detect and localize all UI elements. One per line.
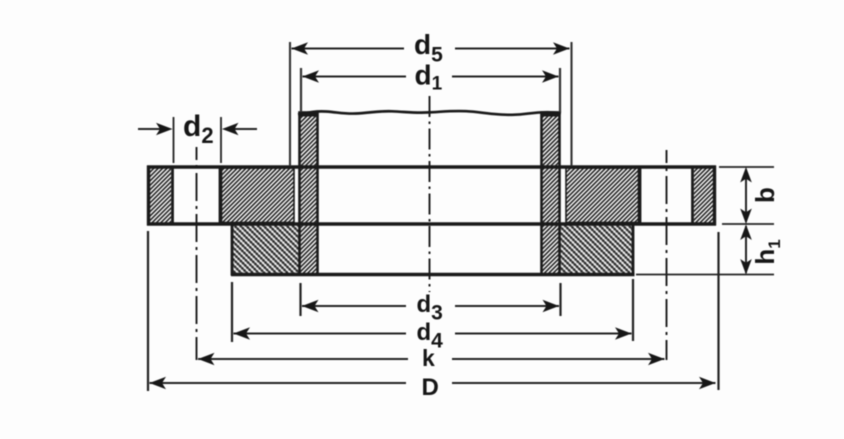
dimension d1: [301, 60, 560, 113]
dimension d2: [138, 110, 257, 163]
boss right edge: [632, 223, 635, 276]
dimension d5: [290, 29, 572, 166]
dimension h1: [636, 225, 784, 275]
flange left outer edge: [147, 166, 150, 226]
boss right hatched block: [560, 226, 633, 274]
boss left edge: [231, 223, 234, 276]
flange right rim hatched block: [694, 168, 714, 223]
pipe break wavy top line: [298, 111, 561, 115]
dimension D: [148, 231, 719, 401]
right bolt centerline: [666, 150, 668, 360]
svg-text:k: k: [422, 345, 435, 371]
flange plate bottom edge: [147, 222, 716, 225]
flange right outer edge: [713, 166, 716, 226]
svg-text:D: D: [422, 374, 439, 401]
flange plate left mid hatched block: [222, 168, 295, 223]
boss bottom edge: [231, 273, 635, 276]
boss left hatched block: [233, 226, 300, 274]
flange plate right mid hatched block: [566, 168, 639, 223]
svg-text:b: b: [750, 187, 780, 203]
pipe left wall: [300, 113, 318, 275]
dimension d4: [232, 279, 633, 353]
flange plate top edge: [147, 165, 716, 168]
main centerline: [429, 96, 431, 292]
right bolt hole left edge: [639, 167, 642, 224]
dimension d3: [301, 283, 561, 325]
dimension b: [719, 167, 780, 224]
left bolt centerline: [196, 147, 198, 360]
dimension k: [198, 345, 665, 371]
pipe right wall: [542, 113, 560, 275]
flange left rim hatched block: [150, 168, 171, 223]
left bolt hole right edge: [219, 167, 222, 224]
left bolt hole left edge: [171, 167, 174, 224]
right bolt hole right edge: [691, 167, 694, 224]
